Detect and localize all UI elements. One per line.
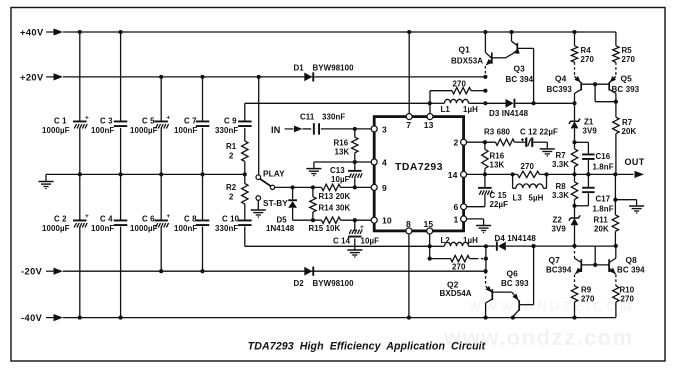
wire C5/C6 column [160, 77, 162, 271]
svg-text:14: 14 [448, 170, 458, 180]
capacitor C1 [42, 114, 89, 135]
svg-text:100nF: 100nF [91, 224, 114, 233]
svg-text:R4: R4 [581, 46, 592, 55]
svg-text:TDA7293: TDA7293 [395, 162, 443, 173]
svg-text:D1: D1 [294, 63, 305, 72]
svg-text:R16: R16 [334, 139, 349, 148]
svg-text:R11: R11 [594, 215, 609, 224]
junction -40V/R9 [572, 316, 576, 320]
svg-text:3V9: 3V9 [583, 127, 598, 136]
svg-text:270: 270 [581, 294, 595, 303]
junction bus/C5C6 [159, 172, 163, 176]
svg-text:BXD54A: BXD54A [440, 289, 472, 298]
title text [248, 341, 486, 353]
junction L2 right [484, 244, 488, 248]
junction R16b/C15 [483, 172, 487, 176]
junction R7/R8 output [572, 172, 576, 176]
wire C10 to mute bus [244, 227, 246, 247]
capacitor C9 [215, 116, 252, 135]
junction L3 left [511, 172, 515, 176]
capacitor C16 [575, 142, 614, 174]
diode D2 [294, 267, 355, 288]
wire Q6 base up [520, 246, 534, 305]
resistor R7 3.3K [552, 142, 578, 174]
svg-text:BC 393: BC 393 [612, 85, 640, 94]
svg-text:+: + [85, 213, 89, 220]
svg-text:330nF: 330nF [215, 126, 238, 135]
junction pin2/R16 [483, 140, 487, 144]
svg-text:+: + [360, 224, 364, 231]
svg-text:100nF: 100nF [91, 126, 114, 135]
junction -20V/C8 [200, 269, 204, 273]
svg-text:13K: 13K [335, 148, 350, 157]
transistor Q1 [451, 32, 492, 77]
svg-text:Q5: Q5 [621, 74, 633, 84]
svg-text:R16: R16 [490, 151, 505, 160]
junction output/R11 [613, 172, 617, 176]
svg-text:10µF: 10µF [331, 175, 350, 184]
junction C13 bottom [353, 185, 357, 189]
svg-text:15: 15 [424, 219, 434, 229]
junction Q1 emitter/+20V [483, 75, 487, 79]
junction -40V/Q6 [511, 316, 515, 320]
wire C11 to pin3 [321, 128, 372, 130]
wire C15 to pin6 [467, 206, 485, 208]
wire -40V rail [63, 317, 616, 319]
svg-text:R15 10K: R15 10K [309, 224, 341, 233]
ground C14 [347, 238, 362, 257]
junction bus/C7C8 [200, 172, 204, 176]
resistor 270 output [518, 162, 540, 177]
svg-text:Q3: Q3 [514, 63, 526, 73]
svg-text:R7: R7 [622, 118, 633, 127]
junction +40V/Q1 [483, 30, 487, 34]
junction -40V/pin8 [407, 316, 411, 320]
svg-text:3: 3 [382, 124, 387, 134]
pin 10 [371, 216, 392, 226]
svg-text:100nF: 100nF [174, 224, 197, 233]
svg-text:5µH: 5µH [529, 193, 544, 202]
pin 6 [454, 202, 467, 212]
pin 1 [454, 214, 467, 224]
svg-text:C16: C16 [596, 152, 611, 161]
svg-text:1µH: 1µH [463, 105, 478, 114]
junction +40V/C3 [119, 30, 123, 34]
inductor L1 [430, 99, 486, 114]
svg-text:C17: C17 [596, 194, 611, 203]
wire +20V rail [63, 76, 485, 78]
junction -20V/C6 [159, 269, 163, 273]
svg-text:C 8: C 8 [184, 215, 197, 224]
wire D4 to R11 [575, 245, 616, 247]
wire pin15 down [429, 234, 431, 246]
net -20V label [21, 267, 43, 277]
junction Q3 base/bootstrap [532, 101, 536, 105]
svg-text:TDA7293 High Efficiency App: TDA7293 High Efficiency Application Circ… [248, 341, 486, 353]
junction +40V/R4 [572, 30, 576, 34]
switch lever [260, 179, 271, 186]
junction Q6 base/D4 [532, 244, 536, 248]
wire pin4 row [314, 161, 372, 163]
inductor L2 [430, 236, 486, 247]
junction D5 top [291, 185, 295, 189]
svg-text:1000µF: 1000µF [130, 126, 158, 135]
wire pin7 to +40V [408, 32, 410, 114]
resistor R7 20K [613, 102, 637, 175]
svg-text:C13: C13 [330, 166, 345, 175]
resistor R10 [613, 275, 635, 318]
transistor Q2 [440, 279, 494, 317]
net -40V arrow [46, 314, 63, 321]
svg-text:L3: L3 [513, 193, 523, 202]
svg-text:BC 394: BC 394 [506, 75, 534, 84]
node IN [271, 125, 281, 135]
junction L3 right [544, 172, 548, 176]
svg-text:+: + [166, 213, 170, 220]
svg-text:R13 20K: R13 20K [319, 192, 351, 201]
wire R11 column [614, 174, 616, 214]
svg-text:1.8nF: 1.8nF [593, 162, 614, 171]
svg-text:C 12 22µF: C 12 22µF [520, 127, 558, 136]
transistor Q8 [609, 246, 645, 276]
svg-text:BC393: BC393 [547, 85, 573, 94]
svg-text:3.3K: 3.3K [552, 160, 569, 169]
svg-text:C 6: C 6 [142, 215, 155, 224]
svg-text:R1: R1 [226, 142, 237, 151]
pin 7 [406, 114, 412, 130]
wire +40V rail [63, 31, 616, 33]
junction -40V/Q2 [484, 316, 488, 320]
svg-text:Q4: Q4 [555, 74, 567, 84]
wire Q3 base down [517, 48, 533, 103]
junction R8/C17/Z2 [572, 204, 576, 208]
junction 270 lower right [484, 257, 488, 261]
watermark [443, 298, 635, 350]
svg-text:270: 270 [453, 80, 467, 89]
transistor Q6 [501, 268, 529, 317]
svg-text:13: 13 [424, 120, 434, 130]
ground output [615, 200, 644, 214]
svg-text:10: 10 [382, 216, 392, 226]
svg-text:1000µF: 1000µF [42, 224, 70, 233]
transistor Q7 [546, 246, 582, 276]
ground C12 [540, 142, 555, 157]
svg-text:BYW98100: BYW98100 [313, 63, 355, 72]
junction -40V/C4 [119, 316, 123, 320]
zener Z2 [552, 206, 581, 246]
svg-text:BC394: BC394 [546, 266, 572, 275]
svg-text:C 5: C 5 [142, 116, 155, 125]
pin 3 [371, 124, 387, 134]
svg-text:270: 270 [521, 162, 535, 171]
svg-text:C 1: C 1 [54, 116, 67, 125]
capacitor C2 [42, 213, 89, 233]
net +20V arrow [46, 73, 63, 80]
svg-text:Q6: Q6 [507, 268, 519, 278]
svg-text:R3 680: R3 680 [484, 127, 511, 136]
svg-text:C 14: C 14 [333, 237, 351, 246]
diode D4 [486, 234, 575, 251]
wire pin2 row [467, 141, 496, 143]
capacitor C6 [130, 213, 170, 233]
svg-text:WWW.ONDZZ.COM: WWW.ONDZZ.COM [468, 298, 635, 314]
svg-text:C 15: C 15 [490, 191, 508, 200]
svg-text:IN: IN [271, 125, 281, 135]
svg-text:D4 1N4148: D4 1N4148 [495, 234, 537, 243]
net +40V label [20, 28, 44, 38]
resistor 270 bootstrap [430, 80, 485, 104]
capacitor C4 [91, 215, 127, 234]
zener Z1 [569, 103, 597, 142]
svg-text:1.8nF: 1.8nF [593, 205, 614, 214]
inductor L3 [513, 174, 547, 202]
svg-text:270: 270 [622, 55, 636, 64]
svg-text:BC 394: BC 394 [617, 266, 645, 275]
svg-text:3.3K: 3.3K [552, 191, 569, 200]
wire +20V to PLAY contact [258, 77, 260, 175]
svg-text:PLAY: PLAY [263, 168, 285, 178]
svg-text:BC 393: BC 393 [501, 279, 529, 288]
svg-text:8: 8 [406, 219, 411, 229]
pin 4 [371, 158, 387, 168]
capacitor C5 [130, 114, 170, 135]
svg-text:C11: C11 [300, 112, 315, 121]
svg-text:C 4: C 4 [100, 215, 113, 224]
svg-text:C 10: C 10 [222, 215, 240, 224]
wire mid ground bus [46, 173, 245, 175]
net -40V label [21, 313, 43, 323]
capacitor C15 [478, 174, 508, 209]
wire mute bus [245, 245, 430, 247]
svg-text:D2: D2 [294, 279, 305, 288]
svg-text:R10: R10 [620, 286, 635, 295]
svg-text:C 2: C 2 [54, 215, 67, 224]
transistor Q3 [506, 32, 534, 84]
wire -20V rail [63, 270, 485, 272]
net +40V arrow [46, 28, 63, 35]
wire C3/C4 column [120, 32, 122, 318]
ground ST-BY [251, 200, 266, 218]
resistor R1 [226, 128, 248, 174]
wire pin1 to ground [467, 219, 484, 225]
pin 8 [406, 219, 412, 234]
junction C14 top [353, 218, 357, 222]
svg-text:D3 IN4148: D3 IN4148 [489, 109, 529, 118]
svg-text:R9: R9 [581, 286, 592, 295]
svg-text:100nF: 100nF [174, 126, 197, 135]
switch ST-BY contact [256, 196, 288, 208]
wire pin8 to -40V [408, 234, 410, 318]
svg-text:OUT: OUT [625, 157, 645, 167]
svg-text:20K: 20K [622, 127, 637, 136]
svg-text:20K: 20K [594, 224, 609, 233]
wire C1/C2 column [79, 32, 81, 318]
ground mid bus [39, 174, 54, 189]
resistor R5 [613, 32, 636, 64]
capacitor C14 [333, 220, 379, 245]
capacitor C17 [575, 174, 614, 213]
wire base link to D4 row [594, 246, 596, 265]
svg-text:1: 1 [454, 214, 459, 224]
net -20V arrow [46, 268, 63, 275]
junction R14 bottom [311, 218, 315, 222]
junction 270 right [483, 89, 487, 93]
switch PLAY contact [256, 168, 285, 179]
svg-text:22µF: 22µF [490, 200, 509, 209]
capacitor C10 [215, 215, 252, 234]
svg-text:ST-BY: ST-BY [263, 198, 288, 208]
junction R11/Q8 [614, 244, 618, 248]
svg-text:1000µF: 1000µF [42, 126, 70, 135]
svg-text:R5: R5 [622, 46, 633, 55]
junction R16 top [353, 127, 357, 131]
junction +40V/Q3 [509, 30, 513, 34]
resistor R15 [309, 217, 341, 233]
transistor Q4 [547, 62, 583, 103]
svg-text:Q1: Q1 [459, 44, 471, 54]
svg-text:D5: D5 [277, 215, 288, 224]
capacitor C12 [515, 127, 558, 147]
svg-text:4: 4 [382, 158, 387, 168]
svg-text:2: 2 [229, 151, 234, 160]
wire C7/C8 column [202, 77, 204, 271]
wire C9 column [244, 103, 246, 120]
junction pin15/L2 [428, 244, 432, 248]
switch pole [270, 185, 274, 189]
wire switch pole to pin9 [275, 186, 372, 188]
svg-text:+: + [166, 114, 170, 121]
svg-text:C 7: C 7 [184, 116, 197, 125]
svg-text:L1: L1 [441, 105, 451, 114]
svg-text:+20V: +20V [20, 72, 44, 82]
junction -20V/Q2 feed [484, 269, 488, 273]
wire pin14/output row [467, 173, 634, 175]
svg-text:1µH: 1µH [463, 236, 478, 245]
svg-text:BYW98100: BYW98100 [313, 279, 355, 288]
pin 9 [371, 183, 387, 193]
capacitor C11 [300, 112, 345, 134]
wire pin13 up [429, 103, 431, 113]
junction pin13/L1 [428, 101, 432, 105]
node OUT arrow [625, 157, 645, 178]
svg-text:2: 2 [229, 192, 234, 201]
junction R11 top/ground [613, 198, 617, 202]
svg-text:-40V: -40V [21, 313, 43, 323]
junction 270 lower left [428, 257, 432, 261]
wire base to Q5 collector [595, 84, 616, 102]
svg-text:R7: R7 [556, 151, 567, 160]
resistor R4 [571, 32, 594, 64]
ground pin4 [306, 162, 321, 176]
svg-text:C 9: C 9 [224, 116, 237, 125]
svg-text:1N4148: 1N4148 [266, 224, 295, 233]
junction +20V/C5 [159, 75, 163, 79]
resistor R8 [552, 174, 578, 205]
svg-text:Z2: Z2 [553, 215, 563, 224]
junction R1/R2/bus [243, 172, 247, 176]
svg-text:R2: R2 [226, 183, 237, 192]
diode D3 [485, 99, 574, 118]
junction +20V/switch feed [257, 75, 261, 79]
resistor R16 input [334, 129, 359, 162]
junction Z1/R7/C16 [572, 140, 576, 144]
svg-text:Z1: Z1 [584, 118, 594, 127]
junction Z2/Q7 [572, 244, 576, 248]
wire Q4-Q5 bases [581, 83, 609, 85]
junction +20V/C7 [200, 75, 204, 79]
svg-text:L2: L2 [441, 236, 451, 245]
capacitor C13 [330, 162, 362, 187]
resistor 270 lower [430, 246, 486, 271]
diode D5 [266, 187, 297, 233]
resistor R11 [594, 215, 619, 246]
junction +40V/pin7 [407, 30, 411, 34]
svg-text:330nF: 330nF [215, 224, 238, 233]
svg-text:270: 270 [621, 294, 635, 303]
junction L1 right [483, 101, 487, 105]
junction +40V/C1 [78, 30, 82, 34]
svg-text:Q7: Q7 [549, 255, 561, 265]
svg-text:7: 7 [406, 120, 411, 130]
svg-text:13K: 13K [490, 161, 505, 170]
resistor R16 feedback [482, 142, 505, 174]
junction base link [593, 82, 597, 86]
svg-text:2: 2 [454, 138, 459, 148]
svg-text:270: 270 [452, 263, 466, 272]
pin 15 [424, 219, 434, 234]
net +20V label [20, 72, 44, 82]
capacitor C7 [174, 116, 209, 135]
svg-text:BDX53A: BDX53A [451, 57, 483, 66]
svg-text:270: 270 [581, 55, 595, 64]
capacitor C8 [174, 215, 209, 234]
junction R16/C13 [353, 160, 357, 164]
diode D1 [294, 63, 355, 81]
svg-text:+40V: +40V [20, 28, 44, 38]
svg-text:-20V: -20V [21, 267, 43, 277]
junction -40V/C2 [78, 316, 82, 320]
junction C16/C17 output [586, 172, 590, 176]
resistor R2 [226, 174, 248, 219]
svg-text:10µF: 10µF [361, 237, 380, 246]
junction Q4 collector/D3 [572, 101, 576, 105]
junction bus/C1C2 [78, 172, 82, 176]
junction lower base link [593, 263, 597, 267]
capacitor C3 [91, 116, 127, 135]
wire Q1 base to Q3 emitter [492, 54, 512, 58]
svg-text:C 3: C 3 [100, 116, 113, 125]
pin 13 [424, 114, 434, 130]
resistor R3 [484, 127, 515, 145]
svg-text:R14 30K: R14 30K [319, 203, 351, 212]
svg-text:+: + [85, 114, 89, 121]
transistor Q5 [608, 62, 640, 101]
svg-text:330nF: 330nF [322, 112, 345, 121]
wire Q2 base to Q6 [492, 291, 512, 293]
svg-text:1000µF: 1000µF [130, 224, 158, 233]
svg-text:6: 6 [454, 202, 459, 212]
wire Q2 column [485, 246, 487, 286]
wire D5 to pin10 [293, 219, 372, 221]
svg-text:Q8: Q8 [626, 255, 638, 265]
resistor R13 [319, 184, 351, 201]
junction R14 top [311, 185, 315, 189]
wire Q7-Q8 bases [581, 264, 609, 266]
wire C9 to bootstrap row [245, 102, 430, 104]
pin 2 [454, 138, 467, 148]
resistor R14 [310, 187, 351, 220]
svg-text:3V9: 3V9 [552, 224, 567, 233]
